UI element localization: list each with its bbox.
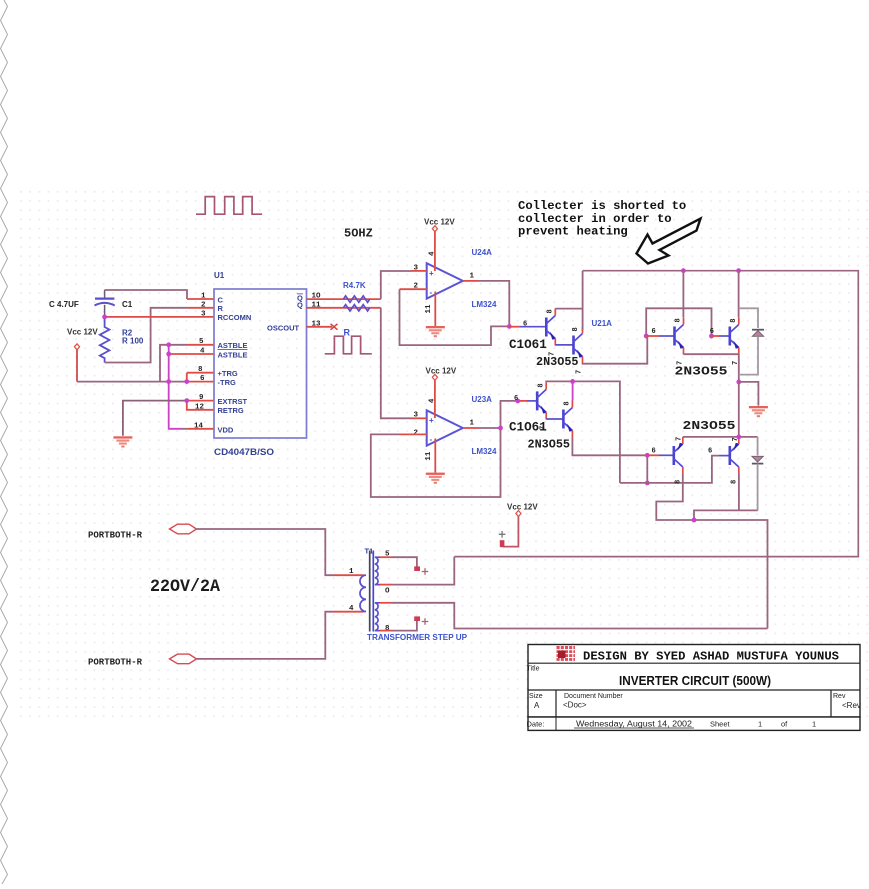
svg-text:Vcc 12V: Vcc 12V	[426, 367, 457, 376]
svg-text:8: 8	[730, 318, 738, 322]
wire pair3 base box	[646, 308, 711, 336]
resistor R2	[100, 317, 110, 363]
pin stub U1.8 / U1.6 bracket	[187, 373, 214, 382]
wire pair1 collectors riser to top bus	[582, 271, 584, 330]
resistor R1b 4.7K (pin11)	[307, 307, 381, 309]
svg-text:6: 6	[523, 321, 527, 329]
wire T1.5 to net flag	[392, 557, 417, 567]
pin stub T1.8	[380, 630, 392, 632]
wire/pin U1.3 from cap junction	[105, 316, 214, 318]
svg-text:3: 3	[201, 310, 206, 318]
wire port1 to T1 pin1	[197, 529, 335, 575]
junction dots on VDD column	[166, 342, 171, 347]
svg-text:prevent heating: prevent heating	[518, 225, 628, 239]
op-amp U23A	[414, 395, 497, 461]
junction top bus / Q6 riser	[736, 268, 741, 273]
transformer T1	[349, 547, 390, 634]
pin stub U1.5	[188, 344, 214, 346]
junction Q6 base	[709, 334, 714, 339]
svg-text:<Doc>: <Doc>	[563, 701, 587, 710]
svg-text:11: 11	[425, 451, 433, 461]
wire EXTRST to ground	[123, 401, 187, 436]
svg-text:8: 8	[731, 480, 739, 484]
wire Q1 collector to bus riser	[555, 308, 582, 310]
pin stub T1.5	[380, 556, 392, 558]
diode D2 (across Q8)	[752, 437, 763, 511]
top bus wire (collector rail)	[454, 271, 858, 557]
wire U23A out up to Q3 base	[501, 401, 518, 428]
core line right	[372, 551, 374, 632]
wire Q5 base stub	[646, 335, 659, 337]
ground (U24A)	[426, 326, 445, 337]
junction U23A out node	[498, 426, 503, 431]
svg-text:Q: Q	[297, 301, 303, 310]
wire Q3 base	[518, 400, 527, 402]
wire Q2 emitter to pair3 base	[583, 336, 648, 364]
svg-text:8: 8	[675, 318, 683, 322]
wire centre tap to output bus	[392, 557, 454, 585]
svg-text:+TRG: +TRG	[218, 369, 238, 378]
junction pair4 emitter rail	[736, 435, 741, 440]
svg-text:Size: Size	[529, 693, 543, 700]
wire Q5 emitter join Q6 emitter	[684, 353, 739, 355]
svg-text:8: 8	[547, 309, 555, 313]
svg-text:C1O61: C1O61	[509, 421, 547, 435]
svg-text:8: 8	[564, 401, 572, 405]
svg-text:Title: Title	[527, 666, 540, 673]
svg-text:R: R	[344, 328, 351, 338]
svg-text:7: 7	[576, 370, 584, 374]
svg-text:6: 6	[652, 448, 656, 456]
svg-text:+: +	[429, 269, 434, 278]
transistor Q4 2N3055 (pair 2)	[563, 401, 573, 438]
diode D1 (across Q6)	[739, 308, 764, 374]
svg-text:Rev: Rev	[833, 693, 846, 700]
junction Q3 base	[515, 399, 520, 404]
svg-text:14: 14	[194, 422, 204, 430]
pin stub U1.14	[188, 428, 214, 430]
wire Q4 emitter down and right to pair4 base	[572, 438, 647, 456]
svg-text:6: 6	[200, 375, 205, 383]
wire Q3 emitter to Q4 base	[546, 418, 562, 420]
svg-text:8: 8	[675, 480, 683, 484]
annotation arrow (outlined, pointing down-left)	[637, 219, 701, 264]
IC U1 CD4047B/SO	[194, 271, 321, 457]
wire secondary-2 top to lower bus	[392, 603, 768, 629]
no-connect X on pin 13	[331, 324, 338, 330]
svg-text:Document Number: Document Number	[564, 693, 623, 700]
svg-text:6: 6	[652, 328, 656, 336]
schematic grid dots	[16, 190, 869, 723]
svg-text:6: 6	[514, 395, 518, 403]
net flag square (Vcc)	[500, 540, 505, 547]
svg-text:R: R	[218, 304, 224, 313]
square-wave symbol (oscillator output, top)	[196, 197, 262, 215]
svg-text:C: C	[218, 295, 224, 304]
wire pair4 base bottom rail	[620, 456, 719, 483]
pin stub T1.0 centre tap	[380, 584, 392, 586]
wire U24A pin11 to ground	[434, 292, 436, 327]
wire Q7 base stub	[647, 454, 659, 456]
pin stub U1.1	[187, 298, 214, 300]
plus mark (T1.8 flag)	[422, 618, 429, 625]
svg-text:6: 6	[708, 448, 712, 456]
primary winding	[360, 575, 366, 611]
pin stub T1.1	[334, 574, 363, 576]
wire cap-top to U1 pin1	[105, 290, 187, 299]
square-wave symbol (OSCOUT)	[325, 336, 372, 354]
wire T1.8 to net flag	[392, 621, 417, 631]
net flag square (T1.8)	[414, 616, 420, 621]
junction pair3 emitter/ground	[736, 380, 741, 385]
junction collector merge	[692, 518, 697, 523]
svg-text:INVERTER CIRCUIT (500W): INVERTER CIRCUIT (500W)	[619, 673, 771, 688]
svg-text:EXTRST: EXTRST	[218, 397, 248, 406]
svg-text:C1: C1	[122, 300, 133, 309]
svg-text:Vcc 12V: Vcc 12V	[507, 503, 538, 512]
svg-text:12: 12	[195, 403, 205, 411]
junction at C1/R2/pin3	[102, 315, 107, 320]
pin stub U1.13 OSCOUT	[307, 326, 333, 328]
pin stub U24A.2	[400, 288, 427, 290]
svg-text:CD4047B/SO: CD4047B/SO	[214, 447, 274, 457]
wire R1 to U24A +in	[381, 271, 412, 299]
svg-text:2N3O55: 2N3O55	[536, 355, 578, 369]
svg-text:8: 8	[385, 625, 390, 633]
svg-text:11: 11	[425, 304, 433, 314]
pin stub U1.2	[188, 307, 214, 309]
core line left	[369, 551, 371, 632]
svg-text:1: 1	[758, 720, 762, 729]
title block	[527, 645, 861, 731]
wire Q6 base stub	[712, 335, 720, 337]
pin stub U1.9 / U1.12 bracket	[187, 401, 214, 410]
plus mark (T1.5 flag)	[422, 568, 429, 575]
plus mark (Vcc flag)	[499, 531, 506, 538]
svg-text:22OV/2A: 22OV/2A	[150, 577, 220, 597]
svg-text:RETRG: RETRG	[218, 406, 244, 415]
svg-text:ASTBLE: ASTBLE	[218, 351, 248, 360]
wire Q7 collector down	[656, 474, 767, 629]
wire R2-bottom loop to U1 pin2	[105, 308, 188, 363]
svg-text:5OHZ: 5OHZ	[344, 227, 373, 241]
svg-text:1: 1	[812, 720, 816, 729]
svg-text:Date:: Date:	[527, 720, 545, 729]
svg-text:2: 2	[201, 301, 206, 309]
pin stub U23A.2	[400, 433, 427, 435]
wire Q1 base	[509, 326, 520, 328]
wire port2 to T1 pin4	[197, 612, 335, 659]
wire Q8 collector down	[694, 474, 758, 520]
ground (U23A)	[426, 473, 445, 484]
svg-text:R4.7K: R4.7K	[343, 281, 366, 290]
svg-text:9: 9	[199, 394, 204, 402]
svg-text:<Rev: <Rev	[842, 701, 861, 710]
junction Q5 base	[644, 334, 649, 339]
svg-text:8: 8	[572, 327, 580, 331]
svg-text:Sheet: Sheet	[710, 720, 731, 729]
svg-text:Wednesday, August 14, 2002: Wednesday, August 14, 2002	[576, 720, 693, 729]
svg-text:6: 6	[710, 328, 714, 336]
svg-text:5: 5	[199, 338, 204, 346]
wire R1b down to U23A +in	[381, 308, 412, 419]
svg-text:8: 8	[198, 366, 203, 374]
net flag square (T1.5)	[414, 566, 420, 571]
svg-text:+: +	[429, 416, 434, 425]
transistor Q6 2N3055 (pair 3)	[730, 318, 740, 355]
transistor Q7 2N3055 (pair 4, flipped)	[674, 437, 684, 474]
svg-text:1: 1	[349, 568, 354, 576]
svg-text:1: 1	[470, 420, 475, 428]
junction pair4 base bottom	[645, 481, 650, 486]
svg-text:U1: U1	[214, 271, 225, 280]
wire Vcc net to pin5 riser	[77, 345, 188, 382]
junction top bus / Q5 riser	[681, 268, 686, 273]
svg-text:of: of	[781, 720, 788, 729]
wire Q6 emitter down to ground node	[738, 355, 740, 437]
wire bus down to Q6 collector	[738, 271, 740, 318]
svg-text:1: 1	[201, 293, 206, 301]
wire Vcc to U23A pin4	[434, 380, 436, 418]
svg-text:DESIGN BY SYED ASHAD MUSTUFA Y: DESIGN BY SYED ASHAD MUSTUFA YOUNUS	[583, 650, 839, 664]
wire Vcc to U24A pin4	[434, 232, 436, 272]
svg-text:Vcc 12V: Vcc 12V	[67, 328, 98, 337]
capacitor C1	[95, 290, 115, 317]
svg-text:R 100: R 100	[122, 337, 144, 346]
wire bus down to Q5 collector	[682, 271, 684, 318]
transistor Q3 C1061 (pair 2)	[537, 382, 547, 419]
svg-text:U23A: U23A	[472, 395, 493, 404]
wire Vcc-left down	[76, 350, 78, 382]
wire VDD column	[169, 345, 182, 429]
wire Q1 emitter to Q2 base	[555, 344, 572, 346]
pin stub U23A.3	[412, 417, 427, 419]
transistor Q2 2N3055 (pair 1)	[574, 327, 584, 364]
wire U23A feedback loop	[371, 428, 501, 497]
svg-text:C 4.7UF: C 4.7UF	[49, 300, 79, 309]
svg-text:ASTBLE: ASTBLE	[218, 341, 248, 350]
ground (pair 3)	[749, 406, 768, 417]
wire pair4 base node	[646, 455, 648, 483]
pin stub U1.4	[169, 353, 214, 355]
pin stub T1.4	[334, 611, 363, 613]
svg-text:PORTBOTH-R: PORTBOTH-R	[88, 531, 143, 541]
op-amp U24A	[414, 248, 497, 314]
junction U24A out node	[507, 324, 512, 329]
svg-text:Vcc 12V: Vcc 12V	[424, 218, 455, 227]
wire pair4 emitters rail	[683, 436, 758, 438]
junction Q3/Q4 collector node	[570, 379, 575, 384]
svg-text:U21A: U21A	[592, 319, 613, 328]
svg-text:-TRG: -TRG	[218, 378, 236, 387]
wire to ground (pair3)	[739, 382, 759, 406]
transistor Q8 2N3055 (pair 4, flipped)	[730, 437, 740, 474]
wire U23A output node	[477, 427, 501, 429]
pin stub U23A.1 output	[463, 427, 477, 429]
svg-text:2N3O55: 2N3O55	[528, 438, 570, 452]
transistor Q1 C1061	[546, 309, 556, 346]
torn-paper zigzag left edge	[1, 0, 8, 884]
svg-text:O: O	[385, 588, 390, 596]
svg-text:OSCOUT: OSCOUT	[267, 324, 300, 333]
logo checker	[557, 646, 576, 662]
svg-text:VDD: VDD	[218, 425, 234, 434]
svg-text:LM324: LM324	[472, 300, 497, 309]
svg-text:4: 4	[349, 605, 354, 613]
svg-text:U24A: U24A	[472, 248, 493, 257]
svg-text:7: 7	[676, 437, 684, 441]
wire Vcc flag down-left	[503, 516, 518, 546]
wire U23A pin11 to ground	[434, 439, 436, 473]
pin stub T1 secondary-2 top	[380, 602, 392, 604]
wire Q3 collector bus	[546, 381, 620, 483]
svg-text:-: -	[430, 288, 433, 297]
svg-text:PORTBOTH-R: PORTBOTH-R	[88, 657, 143, 667]
ground (U1 area)	[113, 436, 132, 447]
pin stub U24A.3	[412, 270, 427, 272]
svg-text:2N3O55: 2N3O55	[683, 419, 736, 433]
junction pair4 base top	[645, 453, 650, 458]
resistor R1 4.7K (pin10)	[307, 298, 381, 300]
svg-text:TRANSFORMER STEP UP: TRANSFORMER STEP UP	[367, 633, 468, 642]
svg-text:2N3O55: 2N3O55	[675, 365, 728, 379]
svg-text:RCCOMN: RCCOMN	[218, 313, 252, 322]
svg-text:-: -	[430, 435, 433, 444]
wire down to Q4 collector	[572, 381, 574, 400]
svg-text:1: 1	[470, 273, 475, 281]
transistor Q5 2N3055 (pair 3)	[675, 318, 685, 355]
svg-text:LM324: LM324	[472, 447, 497, 456]
secondary winding bottom	[375, 603, 380, 631]
svg-text:A: A	[534, 701, 540, 710]
svg-text:8: 8	[537, 383, 545, 387]
pin stub U24A.1 output	[463, 280, 477, 282]
svg-text:4: 4	[200, 348, 205, 356]
wire U24A output to Q1 node	[477, 281, 509, 327]
svg-text:C1O61: C1O61	[509, 338, 547, 352]
secondary winding top	[375, 557, 380, 584]
wire U24A feedback loop	[400, 289, 510, 345]
